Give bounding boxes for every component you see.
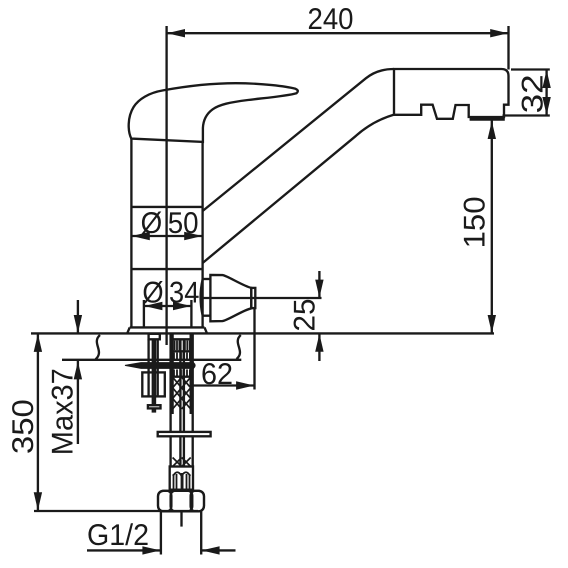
body right edge (201, 142, 203, 328)
dim Max37 lower leg (77, 361, 79, 444)
dim G1/2 line right (201, 549, 235, 551)
dim Max37 upper leg (77, 300, 79, 333)
shank crosshatch small band (173, 458, 191, 467)
knob body (210, 275, 251, 321)
knob axis / dim 25 extension (201, 297, 322, 299)
shank crosshatch band (173, 377, 191, 409)
knob stem (203, 278, 211, 280)
svg-text:Ø 34: Ø 34 (142, 276, 199, 309)
dim 240 line (167, 32, 509, 34)
knob end cap (251, 288, 255, 308)
stud cap (149, 334, 160, 340)
aerator face (thick) (470, 117, 505, 121)
stud nut (142, 372, 165, 396)
svg-text:Ø 50: Ø 50 (141, 207, 199, 240)
dim 62 line (191, 384, 255, 386)
dim line D34 (144, 305, 191, 307)
dim 32 extension top (511, 68, 550, 70)
body joint line lower (131, 268, 202, 270)
dim line D50 (131, 235, 202, 237)
shank top collar lines (171, 338, 193, 340)
svg-text:Max37: Max37 (46, 368, 79, 455)
shank inner right (190, 334, 192, 414)
base flange (127, 327, 207, 333)
spout lower line (203, 115, 394, 263)
countertop top line (31, 332, 494, 334)
dim 25 lower leg (318, 333, 320, 361)
dim 32 extension bottom (503, 114, 550, 116)
mounting plate (158, 432, 211, 436)
break squiggle right (237, 335, 241, 359)
stud washer bar (148, 405, 161, 408)
label D34 (142, 276, 199, 309)
shank core right (183, 339, 185, 466)
stud outer lines (147, 339, 149, 372)
inner column (D34) right edge (190, 300, 192, 327)
label D50 (141, 207, 199, 240)
handle lever (129, 83, 298, 142)
shank thread stripes row2 (174, 353, 190, 360)
stud rod tip (152, 408, 154, 412)
dim 350 line (37, 333, 39, 510)
fork washer bar (125, 363, 195, 369)
svg-text:150: 150 (458, 196, 491, 248)
shank outer left (169, 334, 171, 467)
hex nut (158, 491, 204, 512)
stud rod (152, 339, 154, 405)
svg-text:32: 32 (516, 74, 549, 113)
dim 32 line (545, 70, 547, 116)
svg-text:240: 240 (308, 3, 354, 36)
shank thread stripes row1 (175, 341, 190, 351)
spout upper line (203, 69, 394, 211)
svg-text:350: 350 (7, 399, 40, 454)
spout head outline (394, 69, 509, 119)
body left edge (130, 139, 132, 328)
shank core left (179, 339, 181, 466)
inner column (D34) left edge (143, 300, 145, 327)
shank thread stripes row3 (174, 369, 190, 376)
dim 25 upper leg (318, 271, 320, 298)
dim 150 line (491, 121, 493, 334)
break squiggle left (96, 335, 101, 359)
thread collar (170, 467, 193, 490)
dim G1/2 line left + underline (87, 549, 161, 551)
svg-text:G1/2: G1/2 (87, 519, 149, 552)
dim 62 extension (253, 309, 255, 390)
body edge arc at knob stem (201, 280, 203, 316)
threaded tail left (160, 511, 162, 554)
svg-text:62: 62 (201, 358, 233, 391)
dim 240 extension line right (507, 26, 509, 70)
nut bottom / dim 350 extension (34, 510, 198, 512)
threaded tail right (200, 511, 202, 554)
shank outer right (192, 334, 194, 467)
body joint line upper (131, 206, 202, 208)
shank inner left (171, 334, 173, 414)
center rod (180, 511, 182, 526)
countertop bottom line (62, 359, 241, 361)
dim 240 extension line left / faucet centerline (165, 26, 167, 345)
svg-text:25: 25 (288, 299, 321, 332)
